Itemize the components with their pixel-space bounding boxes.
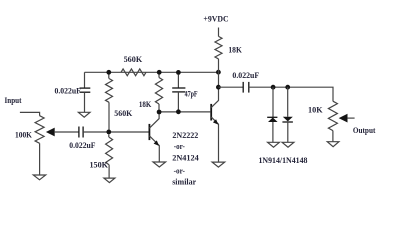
wire R7 to ground	[332, 131, 334, 142]
text label -or- (2)	[174, 165, 185, 175]
wiper arrow of R7	[339, 114, 355, 123]
text value 47pF	[185, 88, 198, 98]
svg-text:2N4124: 2N4124	[172, 152, 199, 162]
wire rail corner down to C1	[84, 72, 86, 88]
wire R3 leads	[108, 75, 110, 130]
wire C1 to ground	[84, 92, 86, 112]
junction dot rail/R4	[157, 70, 162, 75]
junction dot rail/C1/R3	[106, 70, 111, 75]
svg-text:1N914/1N4148: 1N914/1N4148	[259, 155, 308, 165]
transistor Q2 emitter lead	[211, 117, 218, 162]
wire node A to R6 and R6 to ground	[108, 134, 110, 178]
text value 10K	[308, 104, 323, 114]
ground (Q2 emitter)	[212, 162, 225, 167]
text label 1N914/1N4148	[259, 155, 308, 165]
text value 560K (R3)	[114, 108, 132, 118]
potentiometer R7 10K body	[328, 101, 337, 130]
resistor R3 560K body (vertical)	[106, 79, 113, 103]
resistor R4 18K body (vertical)	[155, 78, 162, 105]
junction dot rail/C3	[176, 70, 181, 75]
svg-text:150K: 150K	[90, 159, 109, 169]
junction dot node B left	[157, 110, 162, 115]
junction dot rail/supply	[216, 70, 221, 75]
wire collector node to C4	[218, 86, 243, 88]
svg-text:Input: Input	[5, 95, 22, 105]
transistor Q1 emitter lead	[149, 136, 159, 162]
ground (Q1 emitter)	[153, 162, 166, 167]
wire D1 to ground	[272, 122, 274, 142]
junction dot D2	[285, 85, 290, 90]
wire to diode D2	[287, 87, 289, 117]
text label 2N4124	[172, 152, 199, 162]
svg-text:2N2222: 2N2222	[172, 130, 198, 140]
wire supply lead	[218, 28, 220, 37]
svg-text:0.022uF: 0.022uF	[69, 140, 95, 150]
wire C2 to T1 base	[83, 131, 148, 133]
text label 2N2222	[172, 130, 198, 140]
svg-text:similar: similar	[172, 177, 196, 187]
text value 0.022uF (C2)	[69, 140, 95, 150]
svg-text:47pF: 47pF	[185, 88, 198, 98]
svg-text:560K: 560K	[124, 54, 143, 64]
text value 18K (R4)	[139, 99, 152, 109]
svg-text:-or-: -or-	[174, 165, 185, 175]
text label +9VDC	[203, 14, 228, 24]
text value 18K (R5)	[228, 44, 242, 54]
svg-text:18K: 18K	[139, 99, 152, 109]
junction dot node B / C3	[176, 109, 181, 114]
resistor R6 150K body	[106, 137, 113, 164]
svg-text:100K: 100K	[15, 129, 32, 139]
wire R4 lead to node B	[158, 75, 160, 113]
capacitor C4 0.022uF (output coupling)	[243, 82, 249, 93]
svg-text:18K: 18K	[228, 44, 242, 54]
ground (below R1)	[33, 175, 45, 180]
capacitor C2 0.022uF (series input)	[79, 127, 83, 138]
diode D1 1N914 (cathode up)	[267, 117, 277, 122]
emitter arrowhead Q1	[154, 140, 159, 146]
ground (below D1)	[268, 142, 280, 147]
wire C3 to node B	[177, 92, 179, 112]
svg-text:0.022uF: 0.022uF	[55, 85, 81, 95]
transistor Q1 collector lead	[149, 114, 159, 128]
junction dot collector / C4	[216, 85, 221, 90]
svg-text:+9VDC: +9VDC	[203, 14, 228, 24]
node A junction dot (base node)	[106, 130, 111, 135]
text label "Input"	[5, 95, 22, 105]
svg-text:0.022uF: 0.022uF	[232, 70, 259, 80]
transistor Q2 base bar	[210, 104, 212, 121]
text value 560K (R2)	[124, 54, 143, 64]
resistor R2 560K body (horizontal)	[121, 69, 146, 76]
emitter arrowhead Q2	[213, 119, 218, 124]
wire node B (Q1 collector to Q2 base)	[159, 111, 210, 113]
wire supply 18K down to Q2 collector	[218, 59, 220, 101]
capacitor C3 47pF	[172, 88, 185, 92]
svg-text:Output: Output	[353, 125, 376, 135]
wiper arrow of R1	[46, 128, 79, 137]
wire to diode D1	[272, 87, 274, 117]
svg-text:10K: 10K	[308, 104, 323, 114]
wire rail to C3	[177, 75, 179, 89]
svg-text:560K: 560K	[114, 108, 132, 118]
wire top rail	[85, 71, 219, 73]
ground (below R7)	[327, 142, 339, 147]
svg-text:-or-: -or-	[174, 141, 185, 151]
wire input to potentiometer top	[20, 112, 40, 115]
transistor Q1 base bar	[148, 124, 150, 140]
text value 0.022uF (C1)	[55, 85, 81, 95]
text value 150K	[90, 159, 109, 169]
capacitor C1 0.022uF (rail to ground)	[80, 88, 91, 92]
diode D2 1N4148 (cathode down)	[282, 117, 293, 122]
text value 100K	[15, 129, 32, 139]
ground (below C1)	[78, 112, 90, 117]
junction dot D1	[271, 85, 276, 90]
resistor R5 18K body (supply)	[215, 36, 222, 59]
potentiometer R1 100K body	[35, 116, 44, 144]
transistor Q2 collector lead	[211, 100, 218, 107]
text value 0.022uF (C4)	[232, 70, 259, 80]
wire C4 to output pot	[249, 87, 333, 101]
text label Output	[353, 125, 376, 135]
wire R1 bottom to ground	[39, 143, 41, 175]
wire D2 to ground	[287, 122, 289, 142]
text label similar	[172, 177, 196, 187]
ground (below D2)	[282, 142, 294, 147]
text label -or- (1)	[174, 141, 185, 151]
ground (below R6)	[104, 178, 115, 183]
